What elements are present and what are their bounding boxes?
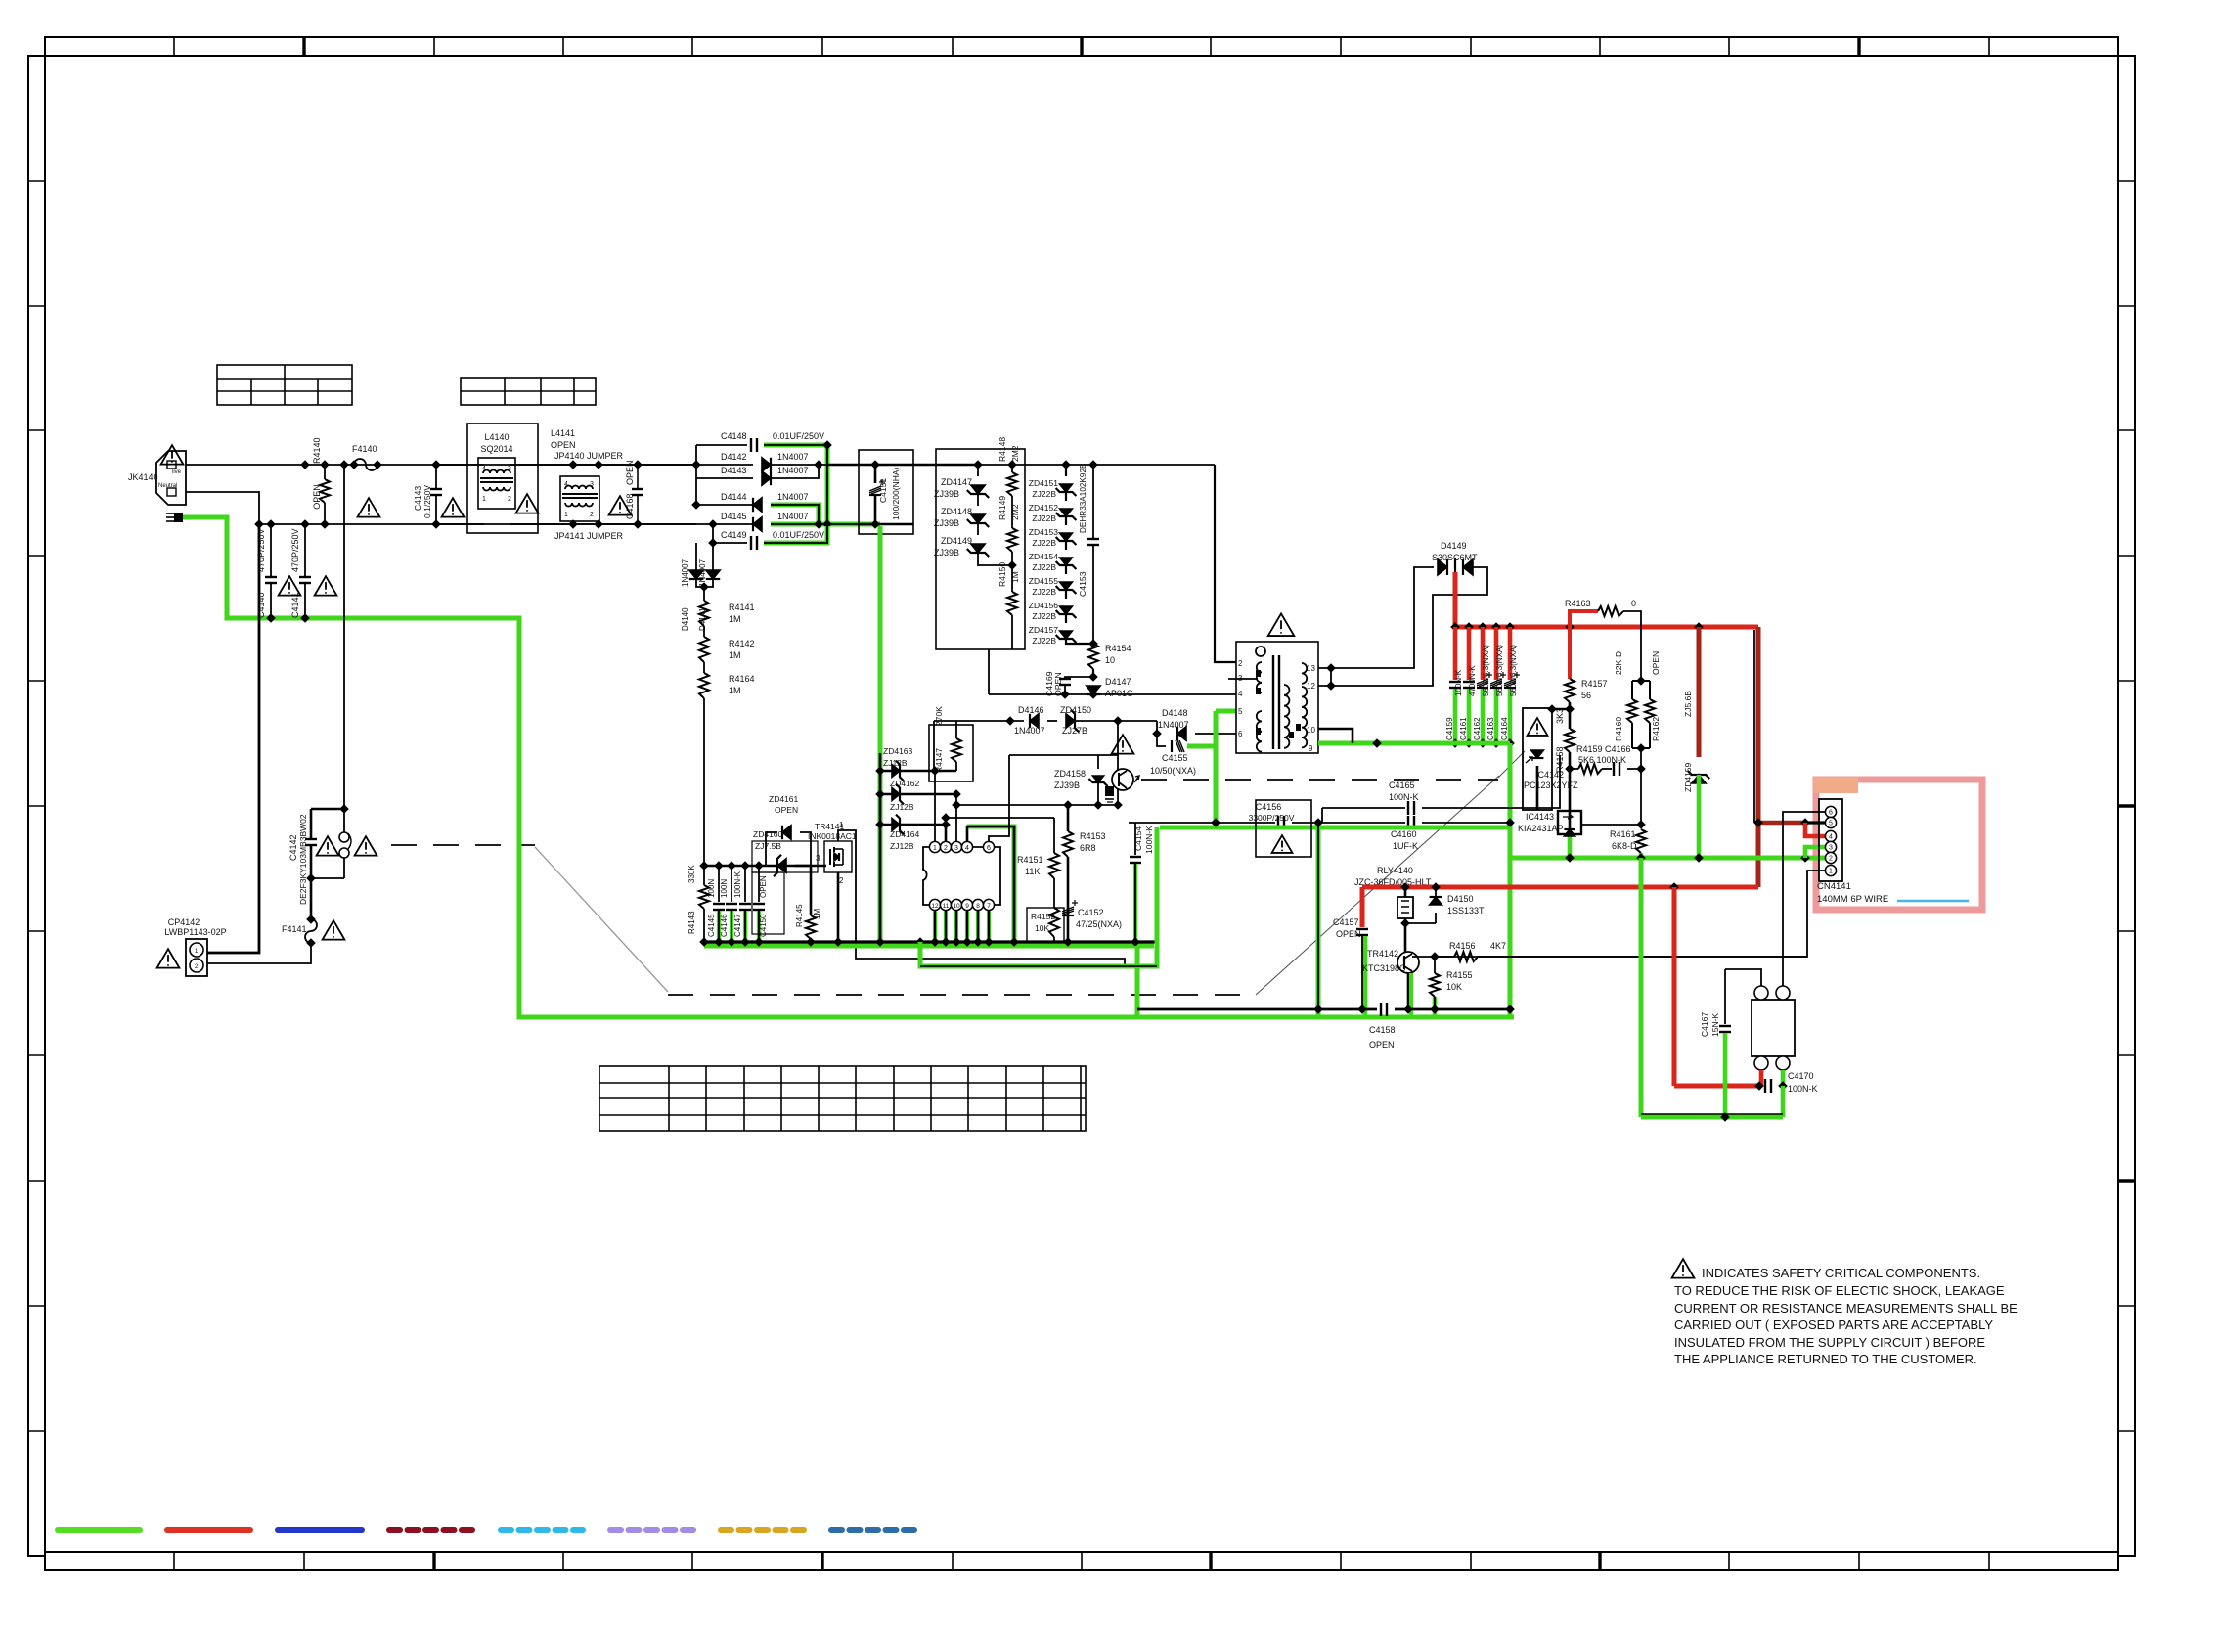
label Neutral pin <box>158 483 177 489</box>
label ZD4164 <box>890 829 920 839</box>
label T4140 pin 2 <box>1238 659 1243 668</box>
svg-text:R4142: R4142 <box>729 639 755 648</box>
svg-text:1N4007: 1N4007 <box>777 492 809 502</box>
capacitor C4152 <box>1062 900 1078 915</box>
junction pin9 <box>1372 738 1382 748</box>
wire R4153 bottom <box>1067 857 1070 942</box>
svg-text:C4168: C4168 <box>625 493 635 519</box>
wire TR4142 base row <box>1412 956 1435 958</box>
wire coil to TR4142 <box>1404 923 1407 952</box>
resistor R4143 <box>699 866 709 942</box>
capacitor C4164 <box>1504 672 1520 688</box>
diode ZD4149 <box>967 544 989 557</box>
capacitor C4168 <box>632 460 643 529</box>
capacitor C4156 <box>1278 816 1284 829</box>
resistor R4155 <box>1430 957 1440 997</box>
junction bridge left bus2 <box>708 519 718 548</box>
label T4140 pin 4 <box>1238 690 1243 698</box>
wire TR4141 source <box>837 872 840 942</box>
wire R4163 out <box>1623 611 1641 681</box>
wire TR4142 emitter green <box>1409 973 1413 1017</box>
label C4158 OPEN <box>1369 1040 1395 1049</box>
diode ZD4152 <box>1056 509 1077 520</box>
wire D4144 out <box>771 505 819 524</box>
label ZD4152 <box>1029 503 1059 513</box>
label C4153 <box>1078 571 1087 597</box>
label D4141 1N4007 <box>698 558 707 587</box>
capacitor C4163 <box>1490 672 1506 688</box>
resistor R4161 <box>1636 829 1646 853</box>
label R4164 <box>729 674 755 684</box>
svg-text:100N: 100N <box>707 879 716 898</box>
svg-text:6R8: 6R8 <box>1080 843 1096 853</box>
label R4156 <box>1449 941 1476 951</box>
svg-text:5K6 100N-K: 5K6 100N-K <box>1578 755 1626 765</box>
wire C4165 line <box>1321 808 1323 823</box>
svg-text:12: 12 <box>1307 682 1315 691</box>
wire bridge left bus2 <box>712 524 714 543</box>
label D4145 value <box>777 512 809 521</box>
wire live through L4140 <box>436 464 484 466</box>
junction R416x <box>1636 676 1646 753</box>
svg-text:R4147: R4147 <box>934 748 944 773</box>
label ZD4157 <box>1029 625 1059 635</box>
resistor R4163 <box>1598 606 1623 616</box>
svg-text:ZJ22B: ZJ22B <box>1032 489 1056 499</box>
label D4146 value <box>1014 726 1045 736</box>
svg-text:JP4141 JUMPER: JP4141 JUMPER <box>554 531 624 541</box>
wire IC pin6 up <box>989 755 1009 841</box>
label ZD4161 OPEN <box>775 805 798 815</box>
diode D4146 <box>1030 714 1039 728</box>
svg-text:live: live <box>172 469 182 475</box>
label C4142 <box>288 834 298 861</box>
wire C4150 bottom green <box>757 911 761 942</box>
wire D4144 out green <box>771 505 819 524</box>
wire neutral bus <box>259 523 713 525</box>
label ZD4164 type <box>890 841 914 851</box>
label C4155 value <box>1150 766 1196 776</box>
junction green earth caps <box>266 613 310 623</box>
label T4140 pin 3 <box>1238 674 1243 683</box>
label R4149 value <box>1010 504 1020 520</box>
wire C4161 bottom green <box>1467 689 1472 743</box>
svg-text:3: 3 <box>590 481 594 488</box>
svg-text:4700N-K: 4700N-K <box>1468 665 1477 696</box>
svg-text:2M2: 2M2 <box>1010 445 1020 462</box>
wire R4154 bottom <box>1092 669 1094 677</box>
wire IC4143 ref <box>1580 824 1641 826</box>
svg-text:OPEN: OPEN <box>312 484 322 510</box>
label ZD4147 type <box>934 489 959 499</box>
label F4141 <box>282 924 307 934</box>
wire green bus to CN <box>1510 856 1825 861</box>
label JK4140 <box>128 472 158 482</box>
svg-text:2: 2 <box>1829 856 1833 863</box>
sheet frame left border strip <box>28 56 45 1556</box>
svg-text:100N-K: 100N-K <box>1454 669 1463 696</box>
label R4158 value <box>1555 708 1565 724</box>
svg-text:ZJ39B: ZJ39B <box>934 518 959 528</box>
wire pin13-pin12 tie <box>1330 668 1332 686</box>
diode D4150 <box>1430 887 1442 923</box>
svg-text:INDICATES SAFETY CRITICAL COMP: INDICATES SAFETY CRITICAL COMPONENTS. <box>1702 1266 1980 1280</box>
capacitor C4153 <box>1087 539 1099 545</box>
label D4150 <box>1447 894 1474 904</box>
wire IC pin bottom 1000 green <box>976 911 980 942</box>
wire R416x to node <box>1640 748 1642 769</box>
wire C4148 line <box>696 444 747 446</box>
svg-text:S30SC6MT: S30SC6MT <box>1432 553 1478 562</box>
junction pin12 <box>1326 681 1336 691</box>
svg-text:4: 4 <box>965 845 969 852</box>
wire D4141 drop <box>712 543 714 571</box>
label R4150 value <box>1010 571 1020 583</box>
junction green bus caps <box>1450 738 1515 748</box>
label ZD4159 <box>1683 762 1693 792</box>
svg-text:1UF-K: 1UF-K <box>1393 841 1418 851</box>
svg-text:C4160: C4160 <box>1391 829 1417 839</box>
resistor R4141 <box>699 601 709 626</box>
isolation boundary diagonal B <box>535 847 668 992</box>
transformer T4140 polarity circle <box>1256 647 1265 656</box>
label ZD4159 type <box>1683 691 1693 717</box>
diode ZD4164 <box>892 815 904 835</box>
resistor R4147 <box>952 725 961 771</box>
wire C4149 out <box>764 526 827 543</box>
wire pin5 feed <box>1758 821 1805 826</box>
label R4158 <box>1555 746 1565 773</box>
wire C4145 bottom green <box>717 911 721 942</box>
label D4148 <box>1162 708 1188 718</box>
label C4170 <box>1788 1071 1814 1081</box>
label T4140 pin 13 <box>1307 664 1315 673</box>
label D4143 value <box>777 466 809 475</box>
wire ZD4155 link <box>1065 590 1067 599</box>
svg-text:ZD4147: ZD4147 <box>941 477 972 487</box>
wire R4153 top <box>1067 805 1070 831</box>
label C4148 value <box>773 431 824 441</box>
wire R4141-R4142 <box>703 626 705 637</box>
wire L4140 to JP4140 <box>510 464 573 466</box>
wire ZD4151 link <box>1065 492 1067 501</box>
wire F4141 to CP4142 pin2 <box>207 943 311 963</box>
label C4156 <box>1256 802 1282 812</box>
label C4160 value <box>1393 841 1418 851</box>
label C4145 value <box>707 879 716 898</box>
label C4149 <box>721 530 747 540</box>
label RLY4140 <box>1377 866 1413 875</box>
junction gate row <box>1005 716 1123 726</box>
sheet frame bottom border strip <box>45 1552 2118 1570</box>
svg-text:C4154: C4154 <box>1133 826 1143 851</box>
legend green solid wire sample <box>58 1527 140 1533</box>
svg-text:CN4141: CN4141 <box>1817 881 1851 892</box>
svg-text:3: 3 <box>508 466 511 472</box>
svg-text:D4150: D4150 <box>1447 894 1474 904</box>
junction D4142 out <box>814 440 832 469</box>
label C4141 <box>290 592 300 618</box>
junction pin13 <box>1326 663 1336 673</box>
label TR4142 <box>1367 949 1398 959</box>
wire green bottom horiz black <box>1641 1113 1783 1115</box>
wire C4142 bottom link <box>311 877 344 879</box>
label C4148 <box>721 431 747 441</box>
svg-text:ZD4153: ZD4153 <box>1029 527 1059 537</box>
label R4164 value <box>729 686 741 695</box>
svg-text:C4163: C4163 <box>1486 717 1495 740</box>
wire C4165 line3 <box>1422 755 1560 808</box>
svg-text:C4150: C4150 <box>759 914 768 937</box>
label T4140 pin 5 <box>1238 707 1243 716</box>
junction R chain mid <box>1007 560 1017 570</box>
warning triangle in note <box>1672 1259 1695 1277</box>
wire C4167 green <box>1723 1033 1728 1117</box>
svg-text:12: 12 <box>931 903 939 910</box>
wire green out bottom <box>1781 1086 1786 1117</box>
fuse F4140 <box>349 459 382 470</box>
label R4152 <box>1031 912 1055 921</box>
svg-text:R4163: R4163 <box>1565 599 1591 608</box>
capacitor C4162 <box>1477 672 1492 688</box>
label C4152 value <box>1076 919 1122 929</box>
wire pin5 green <box>1214 746 1219 827</box>
svg-text:C4156: C4156 <box>1256 802 1282 812</box>
svg-text:140MM 6P WIRE: 140MM 6P WIRE <box>1817 894 1888 905</box>
wire red B+ bus <box>1455 625 1758 630</box>
wire C4163 bottom green <box>1494 689 1499 743</box>
resistor R4158 <box>1565 729 1575 752</box>
diode ZD4159 <box>1688 771 1709 783</box>
wire opto row <box>1009 754 1118 756</box>
wire TR4142 emitter <box>1407 973 1410 1009</box>
svg-text:6K8-D: 6K8-D <box>1612 841 1637 851</box>
label TR4142 type <box>1362 963 1406 973</box>
svg-text:C4148: C4148 <box>721 431 747 441</box>
wire bridge left bus <box>695 445 697 505</box>
svg-text:5: 5 <box>1238 707 1243 716</box>
label TR4141 pin3 <box>816 854 821 863</box>
wire IC4143 column <box>1569 769 1572 834</box>
svg-text:470P/250V: 470P/250V <box>290 528 300 572</box>
junction TR4142 base <box>1430 952 1440 961</box>
R4152 box <box>1027 908 1064 943</box>
label R4163 value <box>1631 599 1636 608</box>
label R4150 <box>998 562 1007 587</box>
capacitor C4142 <box>305 809 317 878</box>
svg-text:ZD4157: ZD4157 <box>1029 625 1059 635</box>
label D4143 <box>721 466 747 475</box>
label C4156 value <box>1249 813 1295 823</box>
wire D4145 line green <box>713 523 753 525</box>
svg-text:3K3: 3K3 <box>1555 708 1565 724</box>
wire relay contact feed <box>1674 1084 1757 1089</box>
svg-text:ZJ7.5B: ZJ7.5B <box>755 841 781 851</box>
optocoupler leader into IC4142 <box>1498 751 1525 778</box>
label CN4141 type <box>1817 894 1888 905</box>
svg-text:ZJ22B: ZJ22B <box>1032 587 1056 597</box>
label R4154 <box>1105 644 1131 653</box>
svg-text:JK4140: JK4140 <box>128 472 158 482</box>
wire B+ branch down <box>1672 887 1677 1086</box>
transistor TR4142 <box>1397 952 1419 973</box>
svg-text:1M: 1M <box>729 650 741 660</box>
label D4144 <box>721 492 747 502</box>
label D4140 <box>681 607 689 631</box>
svg-text:4: 4 <box>1238 690 1243 698</box>
svg-text:R4154: R4154 <box>1105 644 1131 653</box>
wire ZD4147 chain top <box>977 465 979 476</box>
svg-text:ZJ12B: ZJ12B <box>890 841 914 851</box>
label R4141 <box>729 603 755 612</box>
svg-text:C4147: C4147 <box>733 914 742 937</box>
capacitor C4154 <box>1130 857 1141 863</box>
label IC4142 type <box>1524 781 1578 790</box>
svg-text:R4160: R4160 <box>1614 717 1623 741</box>
svg-text:6: 6 <box>987 845 991 852</box>
svg-text:R4161: R4161 <box>1610 829 1636 839</box>
wire D4148 out <box>1195 733 1236 735</box>
wire contact bottom-left red <box>1759 1070 1764 1086</box>
wire ZD4152 link <box>1065 516 1067 525</box>
svg-text:ZJ39B: ZJ39B <box>934 548 959 558</box>
diode ZD4162 <box>892 784 904 805</box>
svg-text:ZJ39B: ZJ39B <box>934 489 959 499</box>
label C4163 <box>1486 717 1495 740</box>
label C4162 value <box>1482 645 1490 696</box>
label ZD4150 <box>1060 705 1091 715</box>
wire C4165 line2 <box>1322 807 1405 809</box>
junction pin4 rail <box>1060 690 1098 699</box>
wire C4154 bottom <box>1134 864 1136 942</box>
junction C4170 left <box>1754 1081 1764 1091</box>
svg-text:KTC3198C: KTC3198C <box>1362 963 1406 973</box>
C4156 box <box>1256 800 1311 857</box>
svg-text:ZD4151: ZD4151 <box>1029 478 1059 488</box>
svg-text:R4162: R4162 <box>1651 717 1661 741</box>
diode ZD4161 <box>782 826 791 839</box>
diode ZD4151 <box>1056 484 1077 496</box>
svg-text:6: 6 <box>1238 730 1243 738</box>
wire IC pin bottom 967 <box>945 911 947 942</box>
capacitor C4157 <box>1356 929 1368 935</box>
wire IC pin3 up <box>955 794 957 841</box>
table bottom parts table <box>599 1066 1086 1131</box>
svg-text:15N-K: 15N-K <box>1710 1013 1720 1037</box>
svg-text:OPEN: OPEN <box>625 460 635 485</box>
svg-text:C4157: C4157 <box>1333 917 1359 927</box>
svg-text:9: 9 <box>965 903 969 910</box>
label R4142 <box>729 639 755 648</box>
svg-text:D4142: D4142 <box>721 452 747 462</box>
wire ZD4160 out <box>795 865 826 868</box>
svg-text:D4144: D4144 <box>721 492 747 502</box>
svg-text:R4157: R4157 <box>1581 679 1608 689</box>
label ZD4154 type <box>1032 562 1056 572</box>
wire C4157 red <box>1360 887 1365 927</box>
svg-text:DEHR33A102K92B: DEHR33A102K92B <box>1079 463 1087 533</box>
label C4141 value <box>290 528 300 572</box>
svg-text:ZD4154: ZD4154 <box>1029 552 1059 561</box>
resistor R4157 <box>1565 679 1575 702</box>
wire ZD4159 green <box>1697 775 1702 858</box>
svg-text:R4155: R4155 <box>1446 970 1473 980</box>
label R4140 <box>312 437 322 464</box>
wire down to R4141 <box>703 587 705 601</box>
label R4153 value <box>1080 843 1096 853</box>
wire C4146 bottom green <box>730 911 733 942</box>
label R4157 <box>1581 679 1608 689</box>
label TR4141 <box>815 822 845 831</box>
svg-text:1N4007: 1N4007 <box>777 466 809 475</box>
junction D414x join <box>699 582 709 592</box>
warning triangle in C4156 box <box>1272 835 1293 853</box>
wire C4163 top red <box>1494 627 1499 680</box>
svg-text:C4164: C4164 <box>1500 717 1509 740</box>
svg-text:R4148: R4148 <box>998 437 1007 462</box>
junction C4170 right <box>1778 1081 1788 1091</box>
label C4163 value <box>1495 645 1504 696</box>
wire pin4 feed red <box>1805 823 1825 836</box>
wire ZD4148-ZD4149 <box>977 523 979 535</box>
svg-text:ZD4150: ZD4150 <box>1060 705 1091 715</box>
svg-text:CP4142: CP4142 <box>168 917 200 927</box>
label C4150 <box>759 914 768 937</box>
svg-text:13: 13 <box>1307 664 1315 673</box>
C4150 open box <box>752 872 784 934</box>
svg-text:R4153: R4153 <box>1080 831 1106 841</box>
svg-text:100N-K: 100N-K <box>1144 826 1154 854</box>
label C4143 <box>413 486 422 511</box>
jumper JP4140 wire <box>568 460 603 469</box>
label R4152 value <box>1035 923 1049 933</box>
label C4159 value <box>1454 669 1463 696</box>
svg-text:C4165: C4165 <box>1389 781 1415 790</box>
sheet frame right border strip <box>2118 56 2135 1556</box>
warning triangle near C4140 <box>279 576 301 595</box>
wire pin12 sense line <box>1753 630 1755 823</box>
svg-text:C4141: C4141 <box>290 592 300 618</box>
resistor R4142 <box>699 637 709 662</box>
svg-text:OPEN: OPEN <box>1651 651 1661 675</box>
svg-text:ZD4159: ZD4159 <box>1683 762 1693 792</box>
wire R4142-R4164 <box>703 662 705 673</box>
svg-text:R4159 C4166: R4159 C4166 <box>1576 744 1631 754</box>
label R4148 value <box>1010 445 1020 462</box>
junction R4157 bottom <box>1565 704 1575 714</box>
label ZD4152 type <box>1032 513 1056 523</box>
wire sec gnd line black2 <box>1292 822 1405 824</box>
warning triangle above photo <box>1112 735 1134 753</box>
svg-text:4K7: 4K7 <box>1490 941 1506 951</box>
optocoupler IC4142 box <box>1523 708 1552 810</box>
junction C4166 out <box>1636 764 1646 774</box>
wire pin13 to D4149 left <box>1235 667 1237 669</box>
svg-text:1N4007: 1N4007 <box>681 558 689 587</box>
wire D4149 center red <box>1453 572 1458 627</box>
label R4143 <box>688 911 696 934</box>
wire R4152 bottom <box>1053 937 1055 942</box>
svg-text:0: 0 <box>1631 599 1636 608</box>
capacitor C4155 <box>1172 740 1184 752</box>
wire D4140 drop <box>695 543 697 571</box>
wire R4160 R4162 top <box>1632 680 1650 682</box>
diode D4147 <box>1087 686 1100 694</box>
diode ZD4160 <box>774 855 786 876</box>
wire bridge- to C4151 <box>859 523 913 526</box>
label ZD4153 <box>1029 527 1059 537</box>
label C4140 value <box>256 528 266 572</box>
